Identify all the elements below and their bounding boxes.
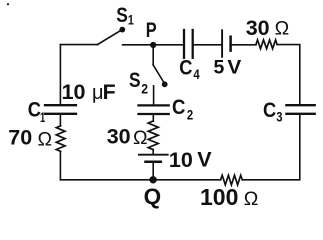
resistor R2 100 ohm (bottom) zigzag — [221, 175, 243, 185]
svg-text:S: S — [116, 4, 128, 27]
node Q — [149, 176, 156, 183]
svg-text:70: 70 — [8, 125, 32, 149]
capacitor C1 bottom plate — [45, 113, 76, 115]
svg-text:1: 1 — [40, 110, 46, 125]
wire 10V battery down to node Q — [152, 163, 154, 180]
speck top-left — [7, 3, 9, 5]
svg-text:C: C — [263, 99, 276, 122]
svg-text:F: F — [103, 81, 116, 104]
resistor R1 30 ohm (top) zigzag — [256, 40, 277, 49]
wire left vertical (top-left corner down to C1) — [59, 45, 61, 105]
svg-text:Ω: Ω — [275, 18, 290, 40]
svg-text:1: 1 — [128, 13, 134, 28]
svg-text:V: V — [227, 57, 241, 78]
capacitor C4 right plate — [192, 30, 194, 58]
battery 5V long plate — [221, 30, 223, 57]
switch S1 contact dot — [119, 27, 125, 33]
capacitor C3 top plate — [286, 104, 314, 106]
svg-text:Ω: Ω — [38, 129, 53, 151]
svg-text:10: 10 — [169, 148, 193, 172]
wire C2 to resistor R4 — [152, 115, 154, 121]
svg-text:100: 100 — [200, 184, 238, 210]
svg-text:P: P — [146, 19, 157, 42]
wire C1 bottom plate to R3 — [59, 115, 61, 126]
wire from S1 gap to C4 (through node P) — [123, 44, 184, 46]
svg-text:S: S — [129, 69, 141, 92]
svg-text:30: 30 — [246, 16, 270, 40]
wire node P down to switch S2 — [152, 45, 154, 65]
battery 10V short plate — [146, 161, 161, 164]
wire bottom rail (R2 left to bottom-left corner) — [60, 179, 220, 181]
svg-text:Q: Q — [144, 184, 162, 209]
capacitor C1 top plate — [45, 104, 76, 106]
wire 5V battery to resistor R1 — [232, 44, 256, 46]
svg-text:2: 2 — [141, 82, 148, 97]
svg-text:10: 10 — [62, 80, 86, 104]
svg-text:Ω: Ω — [133, 127, 148, 149]
switch S2 blade — [153, 65, 164, 83]
battery 10V long plate — [139, 154, 168, 156]
capacitor C2 bottom plate — [139, 113, 169, 115]
svg-text:Ω: Ω — [244, 188, 259, 210]
svg-text:5: 5 — [214, 57, 225, 78]
wire R4 to 10V battery — [152, 150, 154, 154]
wire C4 to 5V battery — [194, 44, 221, 46]
switch S2 contact dot — [162, 81, 168, 87]
wire C3 down to bottom-right corner and left to resistor R2 — [242, 115, 299, 180]
wire top-left horizontal (corner to switch S1) — [60, 44, 97, 46]
svg-text:2: 2 — [187, 107, 193, 122]
battery 5V short plate — [229, 37, 232, 51]
svg-text:C: C — [179, 56, 192, 79]
svg-text:V: V — [197, 147, 212, 171]
capacitor C2 top plate — [139, 104, 169, 106]
svg-text:30: 30 — [107, 124, 131, 148]
resistor R4 30 ohm (middle vertical) zigzag — [148, 121, 158, 150]
capacitor C4 left plate — [183, 30, 185, 58]
capacitor C3 bottom plate — [286, 113, 314, 115]
node P — [150, 42, 156, 48]
svg-text:3: 3 — [276, 110, 283, 125]
svg-text:C: C — [172, 96, 185, 119]
wire bottom-left corner up to resistor R3 — [59, 151, 61, 179]
resistor R3 70 ohm (left vertical) zigzag — [56, 126, 65, 152]
wire R1 to top-right corner and down to C3 — [277, 45, 300, 104]
switch S1 blade — [97, 31, 120, 45]
wire S2 fixed terminal to C2 — [153, 86, 155, 104]
svg-text:4: 4 — [193, 67, 200, 82]
